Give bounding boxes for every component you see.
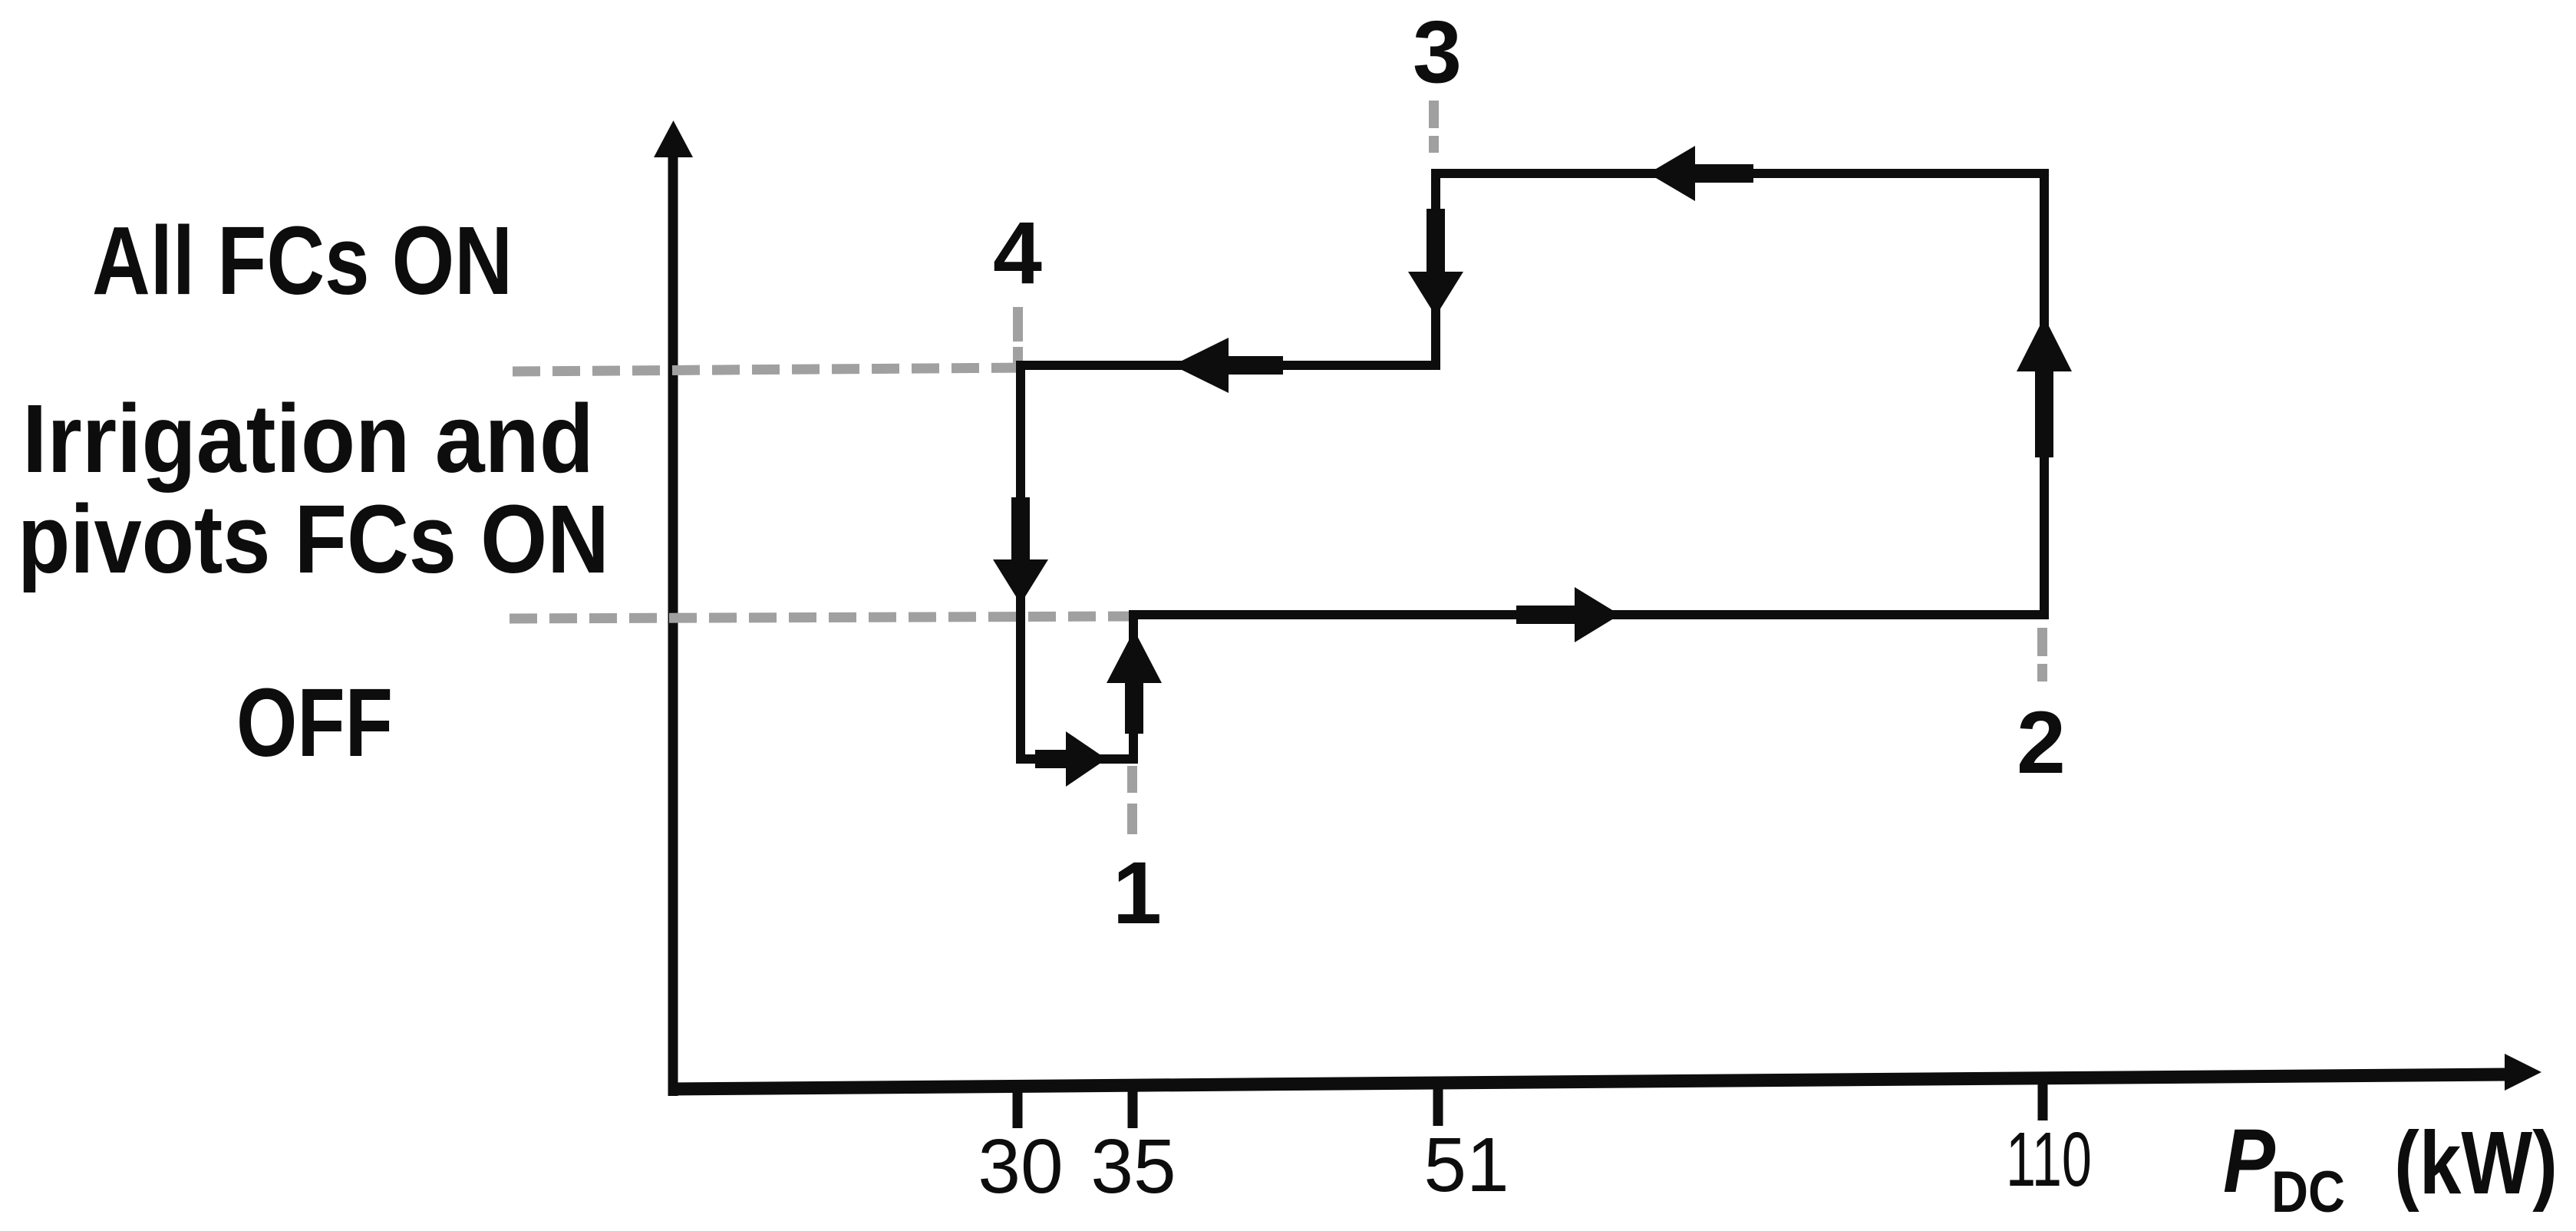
- svg-text:35: 35: [1090, 1124, 1176, 1210]
- arrow down on 51 kW vertical: [1408, 209, 1463, 316]
- svg-text:4: 4: [993, 204, 1042, 302]
- svg-text:110: 110: [2006, 1117, 2092, 1203]
- arrow left on top level segment: [1648, 146, 1753, 201]
- dashed vertical below label 3: [1429, 101, 1439, 153]
- tick 30: [1013, 1084, 1023, 1128]
- arrow right on Irrigation level segment: [1516, 587, 1620, 642]
- arrow up on 110 kW vertical: [2017, 317, 2072, 457]
- svg-text:P: P: [2223, 1111, 2275, 1212]
- svg-text:All FCs ON: All FCs ON: [92, 206, 513, 315]
- dashed vertical above label 1: [1127, 766, 1137, 834]
- wire: Irrigation level horizontal segment (1 to 2): [1129, 610, 2049, 619]
- svg-text:30: 30: [978, 1124, 1063, 1210]
- svg-text:pivots FCs ON: pivots FCs ON: [18, 485, 609, 593]
- y-axis arrowhead: [654, 120, 693, 157]
- arrow left on All FCs level segment: [1173, 338, 1283, 393]
- svg-text:51: 51: [1423, 1122, 1509, 1208]
- wire: vertical segment at 30 kW (4 to OFF loop): [1016, 361, 1025, 764]
- tick 35: [1128, 1084, 1138, 1128]
- svg-text:1: 1: [1113, 844, 1162, 942]
- arrow up on 35 kW vertical: [1107, 630, 1162, 734]
- wire: vertical segment at 35 kW (1 up to Irrigation level): [1129, 614, 1138, 764]
- arrow right on bottom loop segment: [1035, 731, 1107, 787]
- dashed threshold line upper (All FCs ON level): [513, 368, 1028, 371]
- svg-text:(kW): (kW): [2394, 1113, 2558, 1213]
- wire: All FCs level horizontal segment (to 4): [1016, 361, 1440, 370]
- svg-text:2: 2: [2017, 694, 2066, 792]
- dashed vertical below label 2: [2037, 628, 2047, 682]
- svg-text:Irrigation and: Irrigation and: [22, 384, 594, 493]
- wire: top level horizontal segment (toward 3): [1431, 169, 2049, 178]
- svg-text:3: 3: [1413, 3, 1462, 101]
- wire: bottom loop horizontal segment: [1016, 754, 1138, 764]
- wire: vertical segment at 51 kW (3 down to All FCs level): [1431, 169, 1440, 370]
- svg-text:OFF: OFF: [236, 668, 393, 777]
- tick 51: [1433, 1081, 1443, 1126]
- x-axis arrowhead: [2505, 1054, 2541, 1091]
- arrow down on 30 kW vertical: [993, 497, 1048, 604]
- tick 110: [2038, 1077, 2048, 1120]
- dashed vertical below label 4: [1013, 307, 1023, 365]
- x-axis: [668, 1074, 2506, 1089]
- svg-text:DC: DC: [2271, 1160, 2345, 1225]
- wire: vertical segment at 110 kW (2 up to top level): [2040, 169, 2049, 619]
- dashed threshold line lower (Irrigation level): [510, 616, 1134, 619]
- y-axis: [668, 152, 678, 1096]
